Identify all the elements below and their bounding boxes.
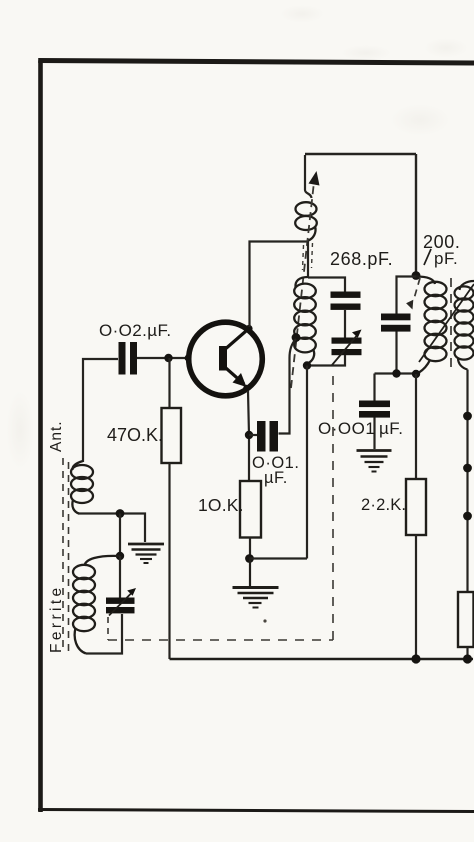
wire: 200pF bottom to tank bottom	[395, 332, 397, 374]
wire: trimmer bottom to tank bottom	[307, 355, 345, 366]
wire: tank bottom rail	[375, 372, 420, 374]
svg-text:2·2.K.: 2·2.K.	[361, 496, 406, 514]
wire: antenna node down to tank top	[119, 514, 121, 557]
trimmer capacitor (antenna) plates	[106, 598, 135, 614]
wire: collector up and over to feedback coil	[250, 242, 309, 328]
wire: 0.01 left plate to emitter line	[249, 434, 257, 436]
node: emitter/0.01 junction dot	[245, 431, 253, 439]
wire: R4 bottom to rail	[466, 647, 468, 659]
svg-text:µF.: µF.	[264, 469, 288, 487]
trimmer arrow (antenna)	[109, 588, 136, 616]
wire: bottom common rail	[170, 658, 474, 661]
wire: top left vertical from top rail	[305, 155, 312, 198]
node: osc tank bottom dot	[303, 361, 311, 369]
wire: tank bottom down to emitter resistor node	[306, 366, 308, 559]
node: tank bottom right dot	[412, 370, 420, 378]
wire: tank top node to trimmer top	[119, 556, 121, 598]
wire: 10K bottom to ground node	[249, 538, 251, 559]
node: tank bottom left dot	[392, 369, 400, 377]
capacitor 268pF fixed plates	[331, 292, 361, 310]
wire: tank bottom to 2.2K	[415, 374, 417, 479]
svg-text:Ant.: Ant.	[48, 420, 65, 452]
node: right column dot 1	[463, 412, 472, 421]
wire: 200pF left branch	[397, 277, 417, 314]
svg-text:O·OO1: O·OO1	[318, 419, 375, 438]
wire: junction to osc tank bottom column	[250, 557, 308, 559]
ganged tuning dashed link	[108, 372, 333, 640]
inductor L6 osc transformer secondary	[455, 281, 474, 370]
node: rail junction dot (2.2K)	[411, 654, 420, 663]
wire: osc tank top to capacitor branch	[308, 278, 345, 292]
inductor L1 antenna winding	[71, 461, 93, 514]
node: tank top junction dot	[116, 552, 124, 560]
node: top right junction dot	[412, 271, 421, 280]
ground below 10K	[233, 559, 279, 608]
node: rail junction dot (right)	[463, 654, 472, 663]
svg-text:pF.: pF.	[434, 249, 458, 268]
variable coupling arrow through transformer	[419, 284, 474, 362]
wire: secondary bottom down right column	[466, 370, 468, 593]
wire: 0.001uF to ground	[373, 418, 375, 450]
svg-text:Ferrite: Ferrite	[48, 584, 65, 653]
wire: collector node down to osc coil top	[307, 242, 309, 278]
wire: osc tap down to 0.01uF	[279, 339, 297, 434]
wire: 0.001uF branch down	[373, 374, 375, 401]
trimmer arrow (osc)	[332, 330, 362, 366]
resistor R1 470K body	[162, 408, 182, 463]
resistor R2 10K body	[240, 481, 261, 538]
wire: between 268pF and trimmer	[344, 310, 346, 338]
transistor Q1	[185, 322, 263, 396]
svg-text:268.pF.: 268.pF.	[330, 249, 393, 269]
svg-text:47O.K.: 47O.K.	[107, 425, 163, 445]
node A base junction dot	[164, 354, 172, 362]
capacitor C2 0.01uF plates	[257, 421, 278, 452]
inductor L5 osc transformer primary	[416, 277, 447, 373]
node: right column dot 3	[463, 512, 472, 521]
label 200pF with pointer	[423, 232, 460, 268]
wire: L1 bottom to ground and tank node	[78, 514, 145, 543]
inductor L4 oscillator coil	[294, 277, 316, 364]
trimmer capacitor (osc) plates	[332, 338, 362, 356]
resistor R4 body (right edge)	[458, 592, 474, 647]
ground (antenna)	[128, 544, 164, 563]
node: oscillator coil tap dot	[292, 333, 301, 342]
node: antenna junction dot	[116, 509, 125, 518]
svg-text:µF.: µF.	[379, 419, 404, 438]
ground (0.001uF)	[357, 451, 392, 472]
capacitor C1 0.02uF plates	[119, 342, 138, 375]
wire: 470K bottom to ground rail	[168, 463, 170, 659]
dashed pointer arrow to 200pF cap	[415, 278, 421, 297]
capacitor 0.001uF plates	[359, 401, 390, 418]
ferrite rod dashed lines	[63, 458, 69, 656]
node: 10K bottom junction dot	[245, 554, 254, 563]
tuning arrow through oscillator coils (dashed)	[291, 182, 314, 388]
wire: top rail	[305, 153, 416, 155]
dashed core line (osc transformer)	[450, 278, 452, 374]
svg-text:O·O2.µF.: O·O2.µF.	[99, 321, 172, 340]
capacitor 200pF plates	[381, 314, 411, 332]
wire: 2.2K bottom to rail	[415, 535, 417, 659]
wire: emitter down through 0.01 node to 10K	[248, 391, 249, 481]
inductor L3 feedback winding	[295, 202, 317, 241]
resistor R3 2.2K body	[406, 479, 426, 535]
wire: input line to 0.02uF and base	[83, 358, 189, 462]
wire: base node down to 470K	[168, 358, 170, 408]
inductor L2 tuned winding	[73, 556, 120, 654]
node: right column dot 2	[463, 464, 472, 473]
wire: right vertical from top rail down	[415, 154, 417, 276]
speck	[263, 619, 266, 622]
wire: L2 bottom to trimmer bottom	[86, 614, 122, 654]
svg-text:1O.K.: 1O.K.	[198, 495, 244, 515]
